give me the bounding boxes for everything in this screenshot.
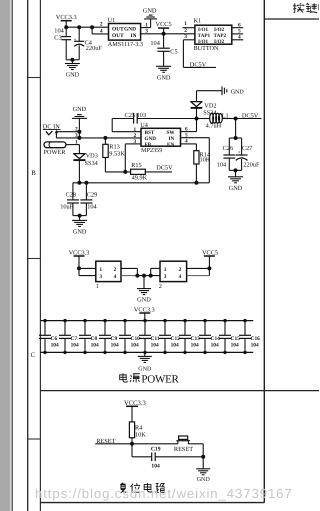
wire input rail	[73, 182, 209, 184]
node SW	[195, 117, 199, 121]
resistor R4 10K	[129, 422, 134, 438]
node U1 input fork	[90, 25, 94, 29]
capacitor C11 104	[143, 319, 146, 322]
pin 4 stub (K1)	[232, 39, 243, 41]
svg-text:C13: C13	[191, 336, 201, 342]
zone tick 3	[28, 438, 41, 440]
ground (rotated, right of VD2)	[221, 86, 223, 95]
pin 1 stub (U1 GND)	[141, 27, 151, 29]
section box line (button circuit, top right)	[264, 18, 319, 20]
svg-text:GND: GND	[231, 89, 245, 95]
ground (below C28/C29)	[79, 216, 81, 221]
svg-text:220uF: 220uF	[86, 45, 103, 52]
capacitor C9 104	[103, 319, 106, 322]
svg-text:BUTTON: BUTTON	[194, 45, 220, 52]
svg-text:EN: EN	[167, 142, 174, 148]
svg-text:C19: C19	[151, 446, 161, 452]
svg-text:C29: C29	[87, 191, 98, 198]
node C29 top	[84, 181, 88, 185]
svg-text:4: 4	[114, 274, 117, 280]
pushbutton RESET	[176, 440, 190, 442]
node C19/button join	[201, 455, 205, 459]
connector 2	[160, 261, 187, 281]
middle border line	[27, 0, 29, 511]
svg-text:R4: R4	[135, 424, 143, 431]
node pin3/gnd rail	[77, 136, 81, 140]
svg-text:4: 4	[185, 139, 188, 145]
capacitor C25 103 (bootstrap)	[112, 131, 141, 133]
ground (below C3/C4)	[71, 60, 73, 64]
resistor R13	[103, 136, 107, 140]
wire conn1 left pins	[79, 267, 96, 269]
capacitor C29 104	[85, 183, 87, 200]
wire conn1 right pins	[121, 267, 137, 269]
svg-text:BST: BST	[145, 130, 155, 136]
plug check symbol	[46, 131, 53, 135]
svg-text:I/O1: I/O1	[198, 27, 208, 33]
wire bottom bus	[40, 351, 253, 353]
svg-text:GND: GND	[145, 136, 157, 142]
svg-text:C26: C26	[223, 145, 234, 152]
pin 4 stub (U4 EN) / resistor R14	[181, 143, 197, 145]
node gnd join	[70, 58, 74, 62]
inductor L1 4.7uH	[210, 113, 214, 123]
wire middle row	[137, 275, 160, 277]
svg-text:B: B	[31, 170, 36, 177]
svg-text:4: 4	[238, 35, 241, 41]
svg-text:2: 2	[75, 127, 78, 133]
svg-text:DC5V: DC5V	[156, 164, 173, 171]
ground (reset)	[196, 468, 210, 470]
svg-text:104: 104	[211, 342, 219, 348]
capacitor C6 104	[43, 319, 46, 322]
section title 按键(电)	[293, 3, 304, 13]
wire conn2 left pins	[151, 267, 160, 269]
wire gnd rail to U4 pin 2	[56, 137, 141, 139]
capacitor C27 220uF (polarized)	[236, 137, 242, 139]
node C4 top	[77, 25, 81, 29]
ground (above U1, inverted)	[150, 19, 152, 28]
svg-text:104: 104	[71, 342, 79, 348]
svg-text:2: 2	[114, 267, 117, 273]
svg-text:L1: L1	[222, 112, 229, 119]
capacitor C7 104	[63, 319, 66, 322]
svg-text:C27: C27	[242, 145, 253, 152]
svg-text:1: 1	[75, 139, 78, 145]
label 复位电路	[120, 483, 126, 493]
svg-text:104: 104	[217, 162, 227, 169]
wire FB node up to U4 pin3	[124, 144, 126, 172]
svg-text:104: 104	[54, 27, 64, 34]
svg-text:3: 3	[164, 274, 167, 280]
svg-text:POWER: POWER	[141, 374, 179, 386]
capacitor C12 104	[163, 319, 166, 322]
capacitor C16 104	[243, 319, 246, 322]
pin 1 stub (K1)	[183, 27, 195, 29]
wire pin2 stub	[92, 26, 108, 28]
wire top bus	[40, 320, 253, 322]
svg-text:104: 104	[251, 342, 259, 348]
svg-text:GND: GND	[124, 26, 136, 32]
svg-text:C9: C9	[111, 336, 118, 342]
right border line	[263, 0, 265, 503]
svg-text:3: 3	[145, 29, 148, 35]
svg-text:C14: C14	[211, 336, 221, 342]
wire VD2 to gnd	[196, 91, 198, 102]
plug arrow symbol	[55, 132, 57, 138]
svg-text:RESET: RESET	[174, 446, 193, 453]
svg-text:104: 104	[151, 464, 160, 470]
svg-text:GND: GND	[66, 72, 80, 79]
svg-text:IN: IN	[169, 136, 175, 142]
svg-text:1: 1	[164, 267, 167, 273]
ground (between connectors)	[143, 276, 145, 289]
net label DC5V (button)	[183, 66, 216, 68]
svg-text:GND: GND	[137, 297, 151, 304]
capacitor C5	[163, 34, 165, 48]
svg-text:104: 104	[150, 40, 160, 47]
svg-text:C5: C5	[170, 49, 177, 56]
svg-text:OUT: OUT	[112, 26, 124, 32]
capacitor C14 104	[203, 319, 206, 322]
svg-text:GND: GND	[73, 228, 87, 235]
svg-text:104: 104	[151, 342, 159, 348]
svg-text:VD3: VD3	[86, 153, 98, 160]
wire DC IN pin2	[56, 131, 79, 133]
svg-text:AMS1117-3.3: AMS1117-3.3	[108, 41, 143, 48]
svg-text:IN: IN	[131, 33, 137, 39]
svg-text:49.9K: 49.9K	[132, 174, 148, 181]
svg-text:I/O2: I/O2	[214, 27, 224, 33]
sheet bottom border	[40, 502, 264, 504]
svg-text:VD2: VD2	[204, 103, 216, 110]
capacitor C4 (polarized 220uF)	[78, 27, 80, 41]
svg-text:1: 1	[99, 267, 102, 273]
diode VD3 SS34	[74, 154, 86, 159]
svg-text:2: 2	[100, 21, 103, 27]
svg-text:2: 2	[179, 267, 182, 273]
svg-text:C11: C11	[151, 336, 160, 342]
ground (below C26/C27)	[235, 170, 237, 176]
ground (cap bank)	[144, 352, 146, 356]
outer border line	[11, 0, 13, 511]
svg-text:104: 104	[191, 342, 199, 348]
pin 6 stub (K1)	[232, 27, 243, 29]
wire VCC3.3 rail to U1	[66, 26, 92, 28]
svg-text:2: 2	[159, 283, 162, 290]
zone tick 2	[28, 258, 41, 260]
svg-text:GND: GND	[138, 367, 152, 373]
capacitor C13 104	[183, 319, 186, 322]
svg-text:https://blog.csdn.net/weixin_4: https://blog.csdn.net/weixin_43739167	[35, 486, 293, 501]
node reset	[130, 442, 134, 446]
connector POWER (barrel)	[44, 142, 66, 148]
wire POWER pin1 to VD3	[66, 144, 79, 146]
svg-text:GND: GND	[157, 74, 171, 81]
svg-text:SS34: SS34	[85, 160, 99, 167]
svg-text:C3: C3	[54, 35, 61, 42]
capacitor C28 10uF	[72, 183, 74, 200]
svg-text:104: 104	[171, 342, 179, 348]
svg-text:5: 5	[185, 133, 188, 139]
pin 5 stub (K1)	[232, 33, 243, 35]
node C3 top	[64, 25, 68, 29]
svg-text:104: 104	[131, 342, 139, 348]
svg-text:1: 1	[96, 283, 99, 290]
svg-text:104: 104	[51, 342, 59, 348]
svg-text:3: 3	[99, 274, 102, 280]
svg-text:10K: 10K	[135, 431, 146, 438]
wire pin4 drop	[91, 27, 93, 34]
capacitor C19 104	[131, 444, 133, 457]
connector 1	[96, 261, 121, 281]
wire button to gnd corner	[188, 443, 203, 445]
zone tick 1	[28, 77, 41, 79]
wire down to C26/C27	[235, 119, 237, 139]
node VD3/rail	[77, 181, 81, 185]
capacitor C3	[65, 27, 67, 36]
sheet left margin (gray)	[0, 0, 11, 511]
svg-text:4.7uH: 4.7uH	[206, 123, 222, 130]
svg-text:104: 104	[91, 342, 99, 348]
capacitor C15 104	[223, 319, 226, 322]
svg-text:SW: SW	[167, 130, 176, 136]
wire R13 bottom to FB node	[105, 171, 125, 173]
svg-text:C25: C25	[125, 112, 136, 119]
node pin2/gnd	[77, 130, 81, 134]
svg-text:C12: C12	[171, 336, 181, 342]
svg-text:9.53K: 9.53K	[109, 151, 125, 158]
svg-text:4: 4	[179, 274, 182, 280]
svg-text:C15: C15	[231, 336, 241, 342]
wire C28/C29 bottom join	[73, 215, 87, 217]
svg-text:104: 104	[87, 204, 97, 211]
section box line (reset circuit)	[40, 390, 319, 392]
wire reset to button	[132, 443, 178, 445]
capacitor C10 104	[123, 319, 126, 322]
wire pin3 down to DC5V	[182, 40, 184, 68]
svg-text:GND: GND	[143, 8, 157, 15]
svg-text:C16: C16	[251, 336, 261, 342]
svg-text:GND: GND	[73, 106, 87, 113]
ground (below C5)	[156, 65, 171, 67]
svg-text:+: +	[74, 37, 77, 42]
svg-text:GND: GND	[197, 477, 211, 483]
svg-text:R15: R15	[131, 162, 142, 169]
svg-text:C7: C7	[71, 336, 78, 342]
pin 3 stub / wire to VCC5 node	[141, 33, 195, 35]
net label DC5V (output)	[236, 118, 262, 120]
svg-text:VCC5: VCC5	[156, 21, 172, 28]
svg-text:OUT: OUT	[112, 33, 124, 39]
capacitor C26 104	[229, 137, 235, 139]
node VCC5 junction	[162, 32, 166, 36]
pin 6 stub (U4 SW)	[181, 131, 197, 133]
node FB divider	[123, 170, 127, 174]
svg-text:GND: GND	[229, 185, 243, 192]
node R14 bottom	[194, 181, 198, 185]
svg-text:1: 1	[184, 21, 187, 27]
label 电源POWER	[120, 373, 127, 382]
pin 3 stub (K1)	[183, 39, 195, 41]
svg-text:DC5V: DC5V	[242, 112, 259, 119]
wire conn2 right pins	[187, 267, 210, 269]
inner border line	[39, 0, 41, 511]
svg-text:C: C	[31, 352, 36, 359]
diode VD2 SS34	[196, 108, 198, 119]
svg-text:220uF: 220uF	[243, 162, 260, 169]
svg-text:6: 6	[238, 22, 241, 28]
svg-text:104: 104	[111, 342, 119, 348]
svg-text:C6: C6	[51, 336, 58, 342]
svg-text:K1: K1	[194, 18, 202, 25]
svg-text:103: 103	[137, 112, 146, 119]
resistor R15	[125, 171, 130, 173]
svg-text:10uF: 10uF	[60, 204, 73, 211]
svg-text:MP2359: MP2359	[141, 147, 162, 154]
capacitor C8 104	[83, 319, 86, 322]
svg-text:3: 3	[75, 133, 78, 139]
svg-text:C8: C8	[91, 336, 98, 342]
node output cap branch	[234, 117, 238, 121]
svg-text:+: +	[238, 149, 241, 154]
wire C26/C27 bottom join	[229, 169, 241, 171]
svg-text:3: 3	[133, 139, 136, 145]
svg-text:C10: C10	[131, 336, 141, 342]
svg-text:R13: R13	[109, 144, 120, 151]
pin 5 stub (U4 IN)	[181, 137, 210, 139]
wire C3/C4 bottom join	[66, 59, 79, 61]
svg-text:POWER: POWER	[43, 149, 66, 156]
svg-text:4: 4	[100, 29, 103, 35]
svg-text:DC5V: DC5V	[190, 62, 207, 69]
svg-text:C28: C28	[66, 191, 77, 198]
svg-text:3: 3	[184, 34, 187, 40]
svg-text:104: 104	[231, 342, 239, 348]
